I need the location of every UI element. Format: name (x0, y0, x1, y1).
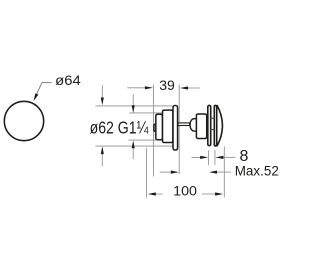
svg-text:ø62 G1¼: ø62 G1¼ (90, 118, 149, 138)
svg-text:100: 100 (173, 182, 197, 198)
svg-text:ø64: ø64 (55, 72, 81, 88)
svg-text:39: 39 (159, 77, 175, 93)
svg-text:Max.52: Max.52 (235, 163, 279, 178)
